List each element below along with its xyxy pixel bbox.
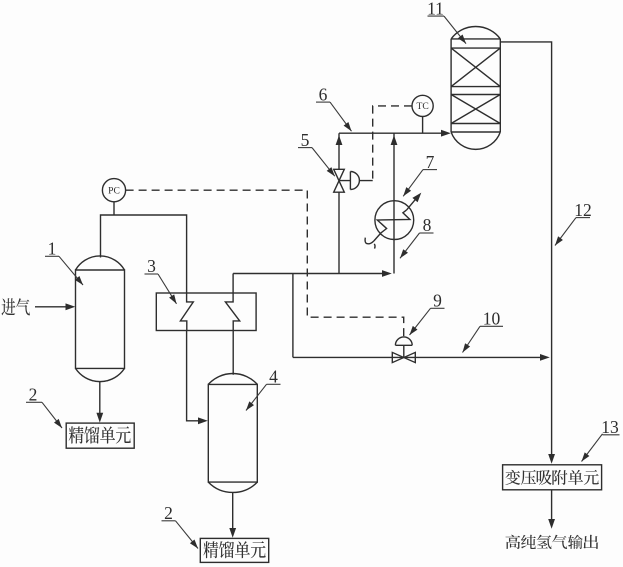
text 精馏单元 left box — [69, 426, 131, 443]
exchanger 3 right tube — [225, 274, 239, 375]
wire feed gas into vessel 1 — [35, 306, 68, 308]
svg-text:TC: TC — [416, 101, 428, 112]
controller TC — [412, 95, 433, 116]
svg-text:12: 12 — [574, 200, 592, 220]
wire exchanger 3 outlet header — [233, 273, 385, 275]
exchanger 3 left tube + wire to vessel 4 inlet — [180, 293, 201, 421]
wire vessel 4 bottom outlet — [232, 493, 234, 529]
svg-text:2: 2 — [164, 503, 173, 523]
wire product hydrogen out — [551, 490, 553, 520]
wire column overhead line 12 to PSA — [500, 42, 551, 455]
svg-text:8: 8 — [423, 215, 432, 235]
adsorption column 11 shell — [451, 39, 500, 132]
coolant outlet flow arrow — [407, 197, 418, 210]
svg-text:10: 10 — [483, 309, 501, 329]
heat exchanger 3 box — [156, 293, 256, 331]
svg-text:9: 9 — [433, 291, 442, 311]
svg-text:5: 5 — [301, 130, 310, 150]
svg-text:2: 2 — [29, 385, 38, 405]
svg-text:13: 13 — [601, 417, 619, 437]
box PSA unit 变压吸附单元 — [503, 465, 602, 490]
column 11 internals: bed lines and X packing — [451, 39, 500, 132]
svg-text:7: 7 — [426, 152, 435, 172]
wire line 6 to column 11 — [339, 132, 444, 134]
wire through exchanger 7 — [393, 133, 395, 273]
text 精馏单元 lower box — [203, 541, 265, 558]
dashed signal line PC to valve 9 — [126, 190, 404, 337]
text 变压吸附单元 — [505, 470, 598, 485]
text 高纯氢气输出 — [505, 535, 598, 549]
vessel 1 separator drum — [76, 270, 125, 368]
wire vessel 1 overhead to exchanger 3 — [101, 215, 187, 293]
svg-text:3: 3 — [147, 256, 156, 276]
wire riser through valve 5 — [338, 133, 340, 273]
control valve 5 body — [334, 169, 345, 192]
box distillation unit (lower) — [200, 538, 268, 562]
svg-text:1: 1 — [48, 239, 57, 259]
coolant tail squiggle — [365, 238, 374, 244]
vessel 4 separator drum — [208, 384, 257, 482]
wire branch down to valve 9 line — [292, 274, 294, 358]
wire line 10 through valve 9 — [293, 356, 543, 358]
dashed signal line TC to valve 5 — [373, 106, 412, 181]
controller PC — [102, 179, 125, 202]
heat exchanger 7 (cooler) — [375, 201, 414, 240]
valve 5 actuator diaphragm — [339, 172, 373, 190]
valve 9 actuator diaphragm — [395, 337, 412, 358]
wire vessel 1 bottom outlet — [99, 382, 101, 414]
svg-text:6: 6 — [319, 84, 328, 104]
svg-text:PC: PC — [108, 186, 120, 197]
svg-text:4: 4 — [269, 367, 278, 387]
control valve 9 body — [392, 352, 415, 362]
box distillation unit (left) — [66, 423, 134, 448]
text inlet gas 进气 — [1, 298, 29, 315]
